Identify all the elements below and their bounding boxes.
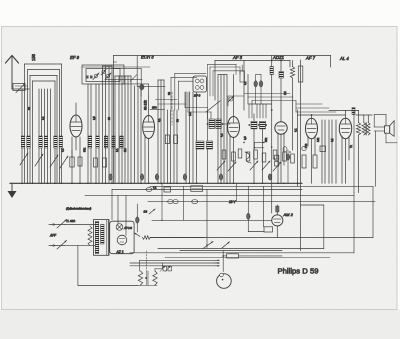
label switch [66,219,75,223]
svg-text:ADZ1: ADZ1 [272,55,285,60]
resistor Rb5 [254,150,258,159]
resistor R1 [70,150,74,167]
ground symbol [8,183,17,198]
resistor Rb4 [246,152,250,161]
mains wires [64,225,95,246]
svg-text:TL 62R: TL 62R [66,219,75,223]
wire verticals band2 [88,84,99,183]
coil L2 group [88,136,123,148]
resistor R9 [168,200,179,204]
capacitor C16 [254,75,258,105]
resistor R2c [103,158,107,167]
anode wire AL4 [329,110,359,112]
potentiometer arrow 2 [222,242,230,248]
svg-text:0,1: 0,1 [115,148,119,152]
wire y250b [180,250,282,252]
resistor Rb2 [232,152,236,161]
tube AM2 [272,205,283,238]
rail wire y201 [148,200,375,202]
osc web wires [106,62,149,96]
capacitor row above bus [109,174,272,180]
speaker return wire [375,131,377,186]
potentiometer arrow [203,242,213,249]
tube AF7 [306,115,318,139]
svg-text:B2: B2 [144,210,148,214]
capacitor C19 [146,186,157,192]
speaker frame wires [374,115,397,143]
trimmer C1 [93,73,99,80]
svg-text:Philips D 59: Philips D 59 [278,266,319,275]
dial lamp [116,224,132,231]
output transformer T3 [356,115,372,135]
svg-text:0,1: 0,1 [330,138,334,142]
capacitor block C11 [260,121,268,183]
svg-text:ECH 3: ECH 3 [141,55,154,60]
wire hbox [228,96,244,106]
det oval 1 [283,147,287,152]
svg-text:AF 7: AF 7 [305,56,316,61]
T2 bottom wire [138,284,157,287]
svg-text:AFF: AFF [49,234,57,238]
power transformer T1 [94,220,110,256]
af wires to output [296,101,336,113]
wire verticals band8 [186,92,197,183]
resistor Rb9 [291,154,295,163]
tube AB2 [228,75,240,138]
resistor Rb8 [283,152,287,161]
svg-text:AM 2: AM 2 [283,212,294,217]
wire verticals band5 [135,86,142,183]
dashed wire [171,92,173,125]
svg-text:EF 8: EF 8 [194,94,201,98]
resistor Rb7 [273,150,277,159]
value labels [27,81,353,152]
speaker LS [374,121,394,137]
label AF 3 [232,55,243,60]
switch arm wire [206,101,220,112]
label ADZ 1 [272,55,285,60]
IF can nest wires [208,64,245,107]
wire verticals band1b [22,89,51,183]
coil L1 group [21,136,62,148]
trimmer box EF9 [82,65,124,84]
label 350 rot [152,106,157,110]
capacitor C15 [286,150,290,183]
detector coil [270,67,273,75]
det dots [243,142,291,153]
svg-text:80-13k: 80-13k [144,100,148,110]
det small box 1 [275,155,279,160]
capacitor C18 [240,65,245,82]
capacitor C14 [136,204,140,232]
svg-text:AZ 1: AZ 1 [116,250,124,254]
label ECH 3 [141,55,154,60]
coil boxes mid [196,141,213,149]
vertical wire x183 [183,186,185,220]
osc coupling web [130,56,206,111]
resistor R7 zig [356,111,360,193]
svg-text:10k: 10k [316,137,320,142]
resistor Rb1 [222,150,226,159]
wire stair3 [158,205,324,249]
wires to rectifier [112,190,126,236]
AB1 pin wires [278,133,284,183]
svg-text:0,1: 0,1 [41,116,45,120]
wire verticals band3 [103,66,113,183]
heater rail wire 4 [165,257,330,259]
EF9 box squares [86,76,93,79]
capacitor block C10 [248,114,259,183]
title Philips D 59 [278,266,319,275]
rail wire y189 [112,189,302,191]
wire verticals band7 [168,110,178,183]
resistor R11 [276,206,279,212]
wire stair2 [130,111,354,253]
wire verticals band1 [24,64,61,183]
rail wire y186 [150,185,373,187]
tube AZ1 [117,235,127,245]
label 80-13k rot [144,100,148,110]
T2 top wires [140,260,163,271]
svg-text:AF 3: AF 3 [232,55,243,60]
svg-text:0,1: 0,1 [243,81,247,85]
box component X3 [223,254,282,258]
capacitor C17 [256,75,263,105]
long vertical wire B [300,60,302,251]
main HT rail wire [114,56,331,68]
tube EF9 [70,103,82,137]
arrow to box [135,233,141,237]
svg-text:0,1: 0,1 [61,148,65,152]
tube AL4 [339,111,351,139]
svg-text:0,5: 0,5 [243,136,247,140]
tube ECH3 [143,96,155,139]
resistor R3 [165,135,169,144]
IF can T4 [207,111,230,183]
svg-text:700: 700 [304,143,308,148]
wire verticals band9 [218,75,227,184]
wire verticals band4 [115,76,131,183]
jack S-wire [245,152,251,163]
resistor R6 [298,66,303,82]
diode tube AB1 [275,60,287,135]
long vertical wire A [297,110,299,186]
svg-text:EF 9: EF 9 [70,55,80,60]
resistor Rb3 [238,149,242,158]
svg-text:(Zylinderwiderstand): (Zylinderwiderstand) [66,207,91,211]
heater rail wire 2 [130,262,220,264]
svg-text:50k: 50k [264,137,268,142]
coupling cap C12 [320,146,326,152]
box component X2 [264,227,273,232]
antenna coupling coil [13,84,27,93]
svg-text:350: 350 [152,106,157,110]
svg-text:1M: 1M [283,91,287,95]
EF9 pin wires [72,137,80,183]
svg-text:0,1: 0,1 [220,133,224,137]
wire top box [244,61,248,111]
svg-text:2M: 2M [123,148,127,152]
svg-text:0,1: 0,1 [294,128,298,132]
vertical wire x263 [263,186,265,227]
right web wires [249,104,272,118]
adjust arrows AF3 [217,161,281,171]
label EF 9 [70,55,80,60]
label AL 4 [339,56,349,61]
resistor R2b [94,158,98,167]
antenna symbol [6,56,30,90]
label mains [49,234,57,238]
box component X1 [191,186,203,192]
resistor R13 zig [142,236,205,240]
vertical wire x207b [206,190,208,248]
tuning arrows band1 [20,153,68,168]
HT dropper wire [113,56,115,184]
svg-text:0,1: 0,1 [153,186,157,190]
osc step wires [150,92,211,119]
ground bus wire [10,182,302,184]
oscillator pack [193,76,207,98]
svg-text:0,1: 0,1 [157,118,161,122]
choke box small [352,108,355,115]
dial drive motor [217,273,232,288]
wire stair1 [150,186,373,237]
cathode parts AF7 [302,146,317,168]
resistor R8 [164,187,171,192]
svg-text:50k: 50k [83,147,87,152]
AF7 pin wires [308,136,315,183]
resistor Rb6 [262,153,266,162]
corner wires det2 [254,142,264,147]
AL4 pin wires [342,136,349,183]
resistor R10 [192,200,198,204]
svg-text:AF D8: AF D8 [123,226,132,230]
resistor R4 [174,135,178,144]
svg-text:0,5: 0,5 [92,116,96,120]
svg-text:28 V: 28 V [228,200,236,204]
capacitor C13 [247,186,265,231]
resistor R5 zig [290,61,295,151]
detector rail wire [271,56,273,214]
trimmer C3 [101,70,106,76]
wire AM2 left [152,183,272,221]
svg-text:156: 156 [31,53,36,61]
svg-text:1M: 1M [188,112,192,116]
dial vertical wire [222,251,224,272]
output transformer T2 [138,271,157,285]
wire loop tops band1 [24,64,61,81]
AB2 pin wires [230,135,234,183]
AVC rail wire [82,66,150,68]
label AM 2 [283,212,294,217]
corner wires det [244,61,296,119]
det small box 2 [275,162,279,167]
resistor R2 [78,157,82,166]
label B2 [144,209,156,214]
label 156 [31,53,36,61]
vertical wire x236 [236,183,238,201]
label 28V [228,200,236,204]
anode wire AF7 [298,114,346,116]
dashed core wire [146,251,148,271]
ECH3 pin wires [145,135,149,183]
heater resistor boxes [160,266,172,272]
rectifier box [110,221,134,254]
label winding note [66,207,91,211]
trimmer circles mid [228,96,234,102]
dropper resistor R12 [88,226,92,246]
mains switch S1 [49,220,67,250]
heater rail wire [140,259,220,261]
AB1 plate coil [279,72,284,79]
svg-text:AL 4: AL 4 [339,56,349,61]
label AF 7 [305,56,316,61]
mains down wire [78,246,138,286]
heater rail wire 3 [130,265,220,267]
rail wire y195 [85,194,354,196]
wire verticals band10 [322,120,336,183]
label AZ 1 [116,250,124,254]
screen rail wire [215,60,290,100]
bus junction dots [21,183,298,185]
wire verticals band6 [158,80,164,183]
trimmer C2 [105,73,111,80]
